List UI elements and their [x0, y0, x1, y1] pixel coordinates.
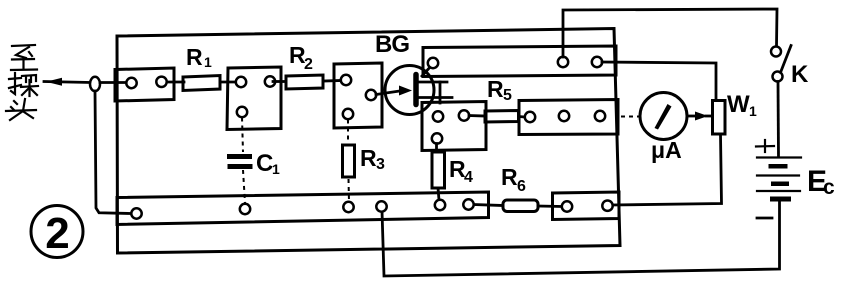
switch K: [771, 46, 809, 89]
svg-text:C: C: [256, 150, 273, 177]
node: probe junction: [90, 77, 100, 91]
svg-text:W: W: [727, 91, 750, 118]
top terminal strip: [423, 46, 616, 77]
label: 至探头 (to probe), hand-drawn strokes: [6, 45, 38, 120]
svg-text:BG: BG: [375, 31, 409, 58]
svg-text:R: R: [501, 164, 518, 190]
wire: switch to battery: [777, 82, 780, 158]
svg-text:μA: μA: [651, 137, 682, 163]
svg-text:c: c: [823, 176, 835, 199]
transistor BG: [375, 31, 452, 115]
terminal strip B: [227, 67, 281, 130]
bottom terminal strip: [117, 192, 489, 225]
svg-text:4: 4: [464, 169, 473, 186]
svg-text:3: 3: [376, 156, 385, 173]
capacitor C1: [227, 118, 280, 204]
resistor R2: [273, 42, 341, 89]
terminal strip E: [519, 100, 618, 135]
svg-text:R: R: [487, 76, 504, 102]
potentiometer W1: [713, 91, 758, 134]
wire: W1 bottom to strip F: [613, 135, 722, 206]
svg-text:R: R: [186, 44, 203, 70]
figure number 2 in circle: [31, 206, 83, 259]
svg-text:2: 2: [304, 56, 313, 73]
wire: left vertical down to bottom strip: [95, 91, 130, 214]
terminal strip C: [334, 63, 382, 128]
wire: battery negative to bottom strip: [382, 202, 780, 276]
svg-text:1: 1: [204, 54, 212, 70]
resistor R4: [432, 144, 473, 201]
wire: top strip up and over to switch K: [563, 9, 777, 57]
wire: top strip to W1 top: [602, 62, 716, 100]
svg-text:1: 1: [272, 161, 280, 177]
resistor R1: [167, 44, 236, 91]
terminal strip D: [422, 102, 486, 151]
meter uA: [640, 93, 687, 164]
svg-text:K: K: [791, 61, 809, 88]
terminal strip F: [553, 192, 620, 220]
terminal strip A: [115, 68, 174, 101]
resistor R6: [474, 164, 562, 212]
resistor R3: [343, 120, 386, 203]
wire: junction to strip A: [100, 81, 127, 84]
svg-text:1: 1: [749, 103, 757, 119]
svg-text:6: 6: [517, 178, 526, 195]
wire: dashed lead to meter: [621, 116, 640, 118]
resistor R5: [469, 76, 525, 122]
wire: probe lead with left arrow: [44, 78, 90, 86]
wire: meter to W1 with arrow: [688, 112, 713, 121]
svg-text:5: 5: [503, 87, 512, 104]
svg-text:2: 2: [45, 209, 69, 258]
battery Ec: [756, 140, 835, 218]
board outline: [117, 29, 620, 254]
svg-text:R: R: [360, 145, 377, 171]
